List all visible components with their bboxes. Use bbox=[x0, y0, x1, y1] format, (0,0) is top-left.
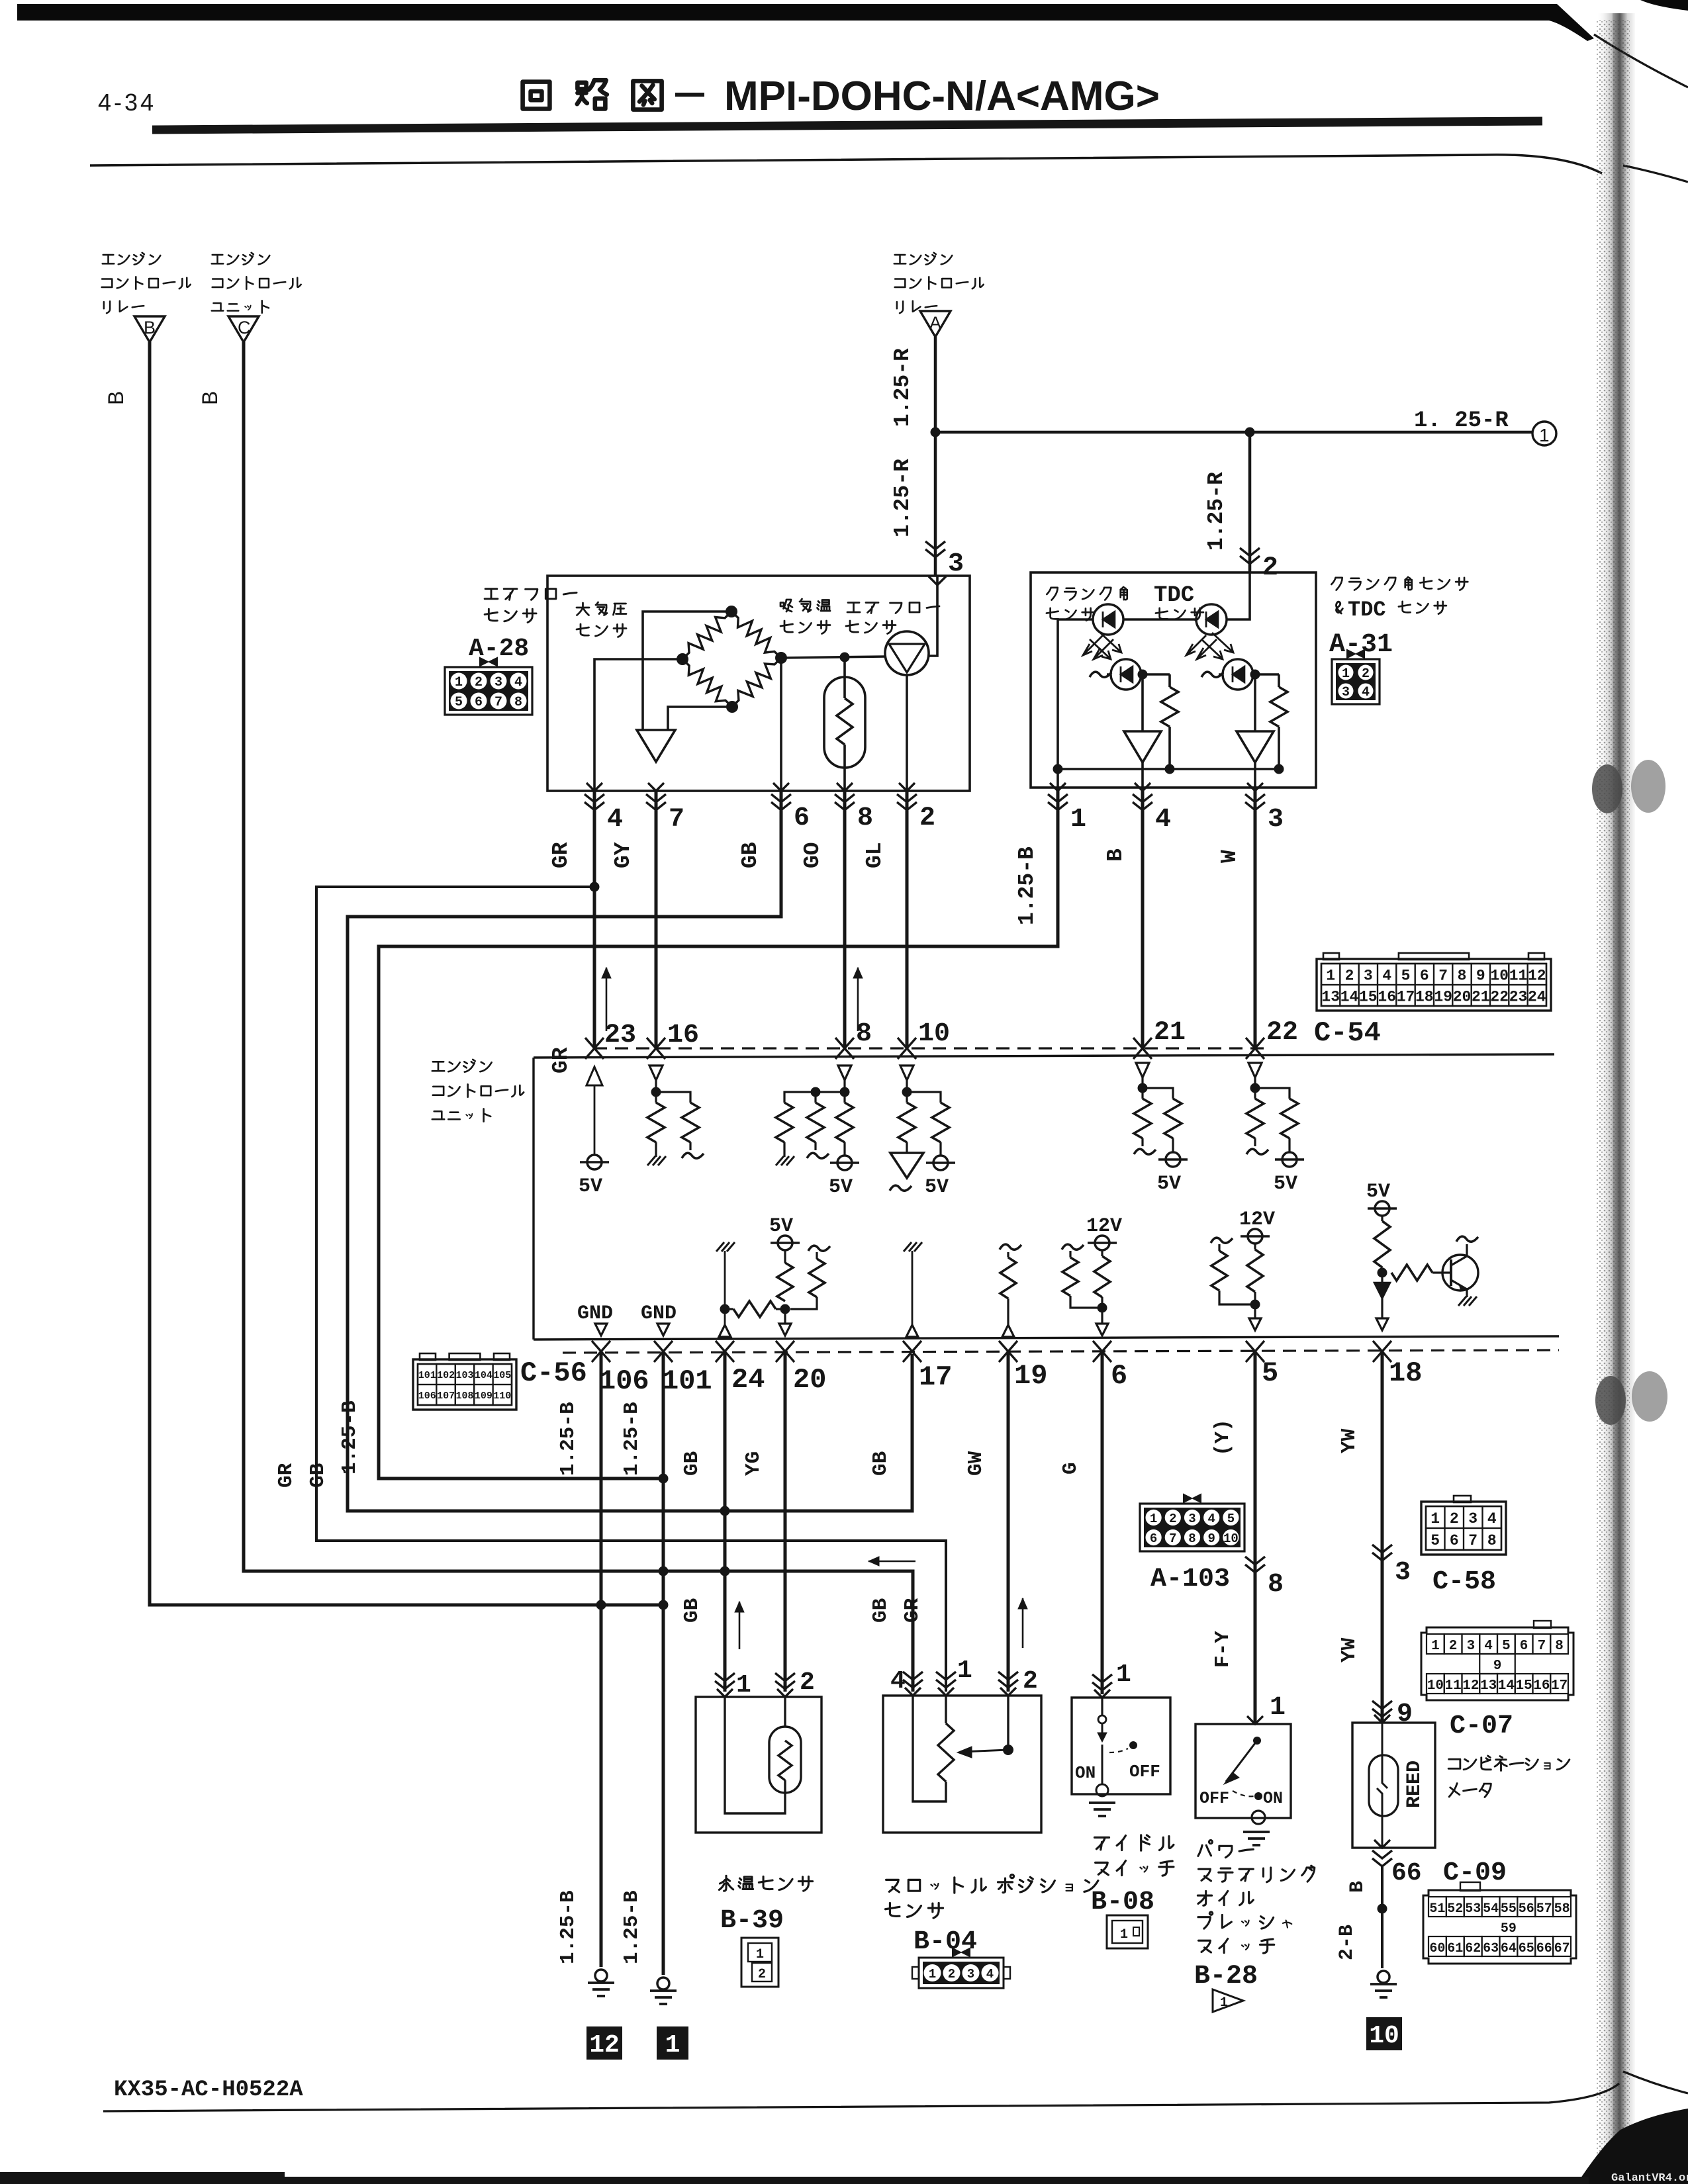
svg-text:4-34: 4-34 bbox=[98, 89, 156, 116]
direction arrow GR wire bbox=[606, 968, 608, 1031]
wire B A-31 pin4 to ECU pin 21 bbox=[1141, 791, 1145, 1050]
svg-text:5V: 5V bbox=[829, 1176, 853, 1199]
hatch ground top pin24 bbox=[716, 1242, 724, 1251]
wire GL pin2 to ECU pin 10 bbox=[906, 791, 909, 1050]
svg-text:3: 3 bbox=[1188, 1512, 1196, 1526]
PS switch ground bbox=[1252, 1811, 1265, 1824]
svg-text:6: 6 bbox=[1150, 1531, 1157, 1546]
connector C-07 17-pin bbox=[1421, 1627, 1573, 1700]
svg-text:63: 63 bbox=[1483, 1941, 1499, 1956]
ECU pin 21 input triangle bbox=[1136, 1063, 1149, 1077]
label power steering oil pressure switch bbox=[1198, 1841, 1213, 1856]
resistor pin22 bbox=[1246, 1099, 1264, 1138]
wire LED bus middle bbox=[1123, 618, 1197, 621]
svg-text:2: 2 bbox=[758, 1967, 766, 1982]
label air flow sensor A-28 bbox=[485, 589, 498, 599]
svg-text:1: 1 bbox=[1270, 1693, 1286, 1723]
svg-text:12V: 12V bbox=[1086, 1215, 1122, 1238]
svg-text:62: 62 bbox=[1465, 1941, 1481, 1956]
svg-text:15: 15 bbox=[1359, 988, 1378, 1005]
ECU pin 20 crossing bbox=[776, 1341, 794, 1362]
svg-text:2: 2 bbox=[919, 803, 935, 833]
ECU left border bbox=[532, 1058, 534, 1340]
ECU bottom boundary line bbox=[534, 1336, 1559, 1340]
TDC pullup resistor bbox=[1278, 674, 1280, 687]
svg-text:2: 2 bbox=[1450, 1510, 1459, 1527]
svg-text:10: 10 bbox=[1223, 1531, 1239, 1546]
LED TDC circle bbox=[1196, 604, 1227, 635]
photo crank input arrows bbox=[1090, 639, 1111, 659]
pin 18 output triangle bbox=[1376, 1318, 1388, 1330]
svg-text:8: 8 bbox=[1458, 967, 1467, 984]
connector C-56 10-pin bbox=[413, 1359, 516, 1410]
label engine control unit C bbox=[212, 255, 223, 263]
svg-text:KX35-AC-H0522A: KX35-AC-H0522A bbox=[114, 2077, 303, 2103]
wire GB pin6 to GB rail to ECU pin 17 bbox=[348, 791, 912, 1511]
svg-text:GB: GB bbox=[869, 1598, 892, 1623]
wire meter to ground bbox=[1381, 1866, 1383, 1968]
pullup resistor pin16 left bbox=[647, 1103, 665, 1142]
wire photo TDC output bbox=[1253, 673, 1279, 676]
hatch ground pin8 bbox=[776, 1156, 784, 1165]
idle switch ground bbox=[1096, 1784, 1108, 1796]
svg-text:61: 61 bbox=[1447, 1941, 1463, 1956]
pin 7 mark bbox=[646, 794, 666, 810]
thermistor capsule B-39 bbox=[769, 1727, 801, 1793]
svg-text:1: 1 bbox=[1539, 425, 1550, 445]
svg-text:1: 1 bbox=[756, 1947, 764, 1962]
svg-text:102: 102 bbox=[437, 1370, 455, 1381]
junction rail C at wire 101 bbox=[659, 1567, 669, 1576]
svg-text:101: 101 bbox=[662, 1365, 712, 1397]
svg-text:1.25-B: 1.25-B bbox=[1015, 846, 1039, 925]
svg-text:GB: GB bbox=[680, 1451, 704, 1476]
svg-text:3: 3 bbox=[1467, 1639, 1476, 1654]
bridge resistor top-left arm bbox=[682, 612, 731, 659]
junction pin16 bbox=[651, 1087, 661, 1097]
junction rail B to wire 101 bbox=[659, 1600, 669, 1610]
bridge node top bbox=[726, 606, 737, 617]
bridge resistor bottom-left arm bbox=[682, 659, 732, 707]
svg-text:58: 58 bbox=[1554, 1901, 1570, 1917]
svg-text:52: 52 bbox=[1447, 1901, 1463, 1917]
connector C-54 24-pin bbox=[1317, 959, 1551, 1011]
svg-text:B-28: B-28 bbox=[1194, 1962, 1258, 1991]
resistor pin19 bbox=[1000, 1257, 1016, 1298]
second resistor pin5 bbox=[1211, 1238, 1233, 1243]
svg-text:A-28: A-28 bbox=[469, 635, 529, 663]
svg-text:B: B bbox=[198, 391, 222, 405]
ECU pin 8 crossing bbox=[835, 1038, 854, 1059]
svg-text:3: 3 bbox=[1395, 1558, 1411, 1588]
svg-text:18: 18 bbox=[1415, 988, 1434, 1005]
svg-text:66: 66 bbox=[1536, 1941, 1552, 1956]
svg-text:5V: 5V bbox=[1157, 1173, 1181, 1195]
svg-text:1.25-B: 1.25-B bbox=[557, 1890, 580, 1964]
svg-text:B: B bbox=[1103, 848, 1128, 862]
label engine control relay B bbox=[103, 255, 114, 263]
pin 3 exit bbox=[1254, 762, 1256, 791]
svg-text:1: 1 bbox=[1120, 1927, 1128, 1942]
bus GR rail horizontal bbox=[316, 887, 946, 1692]
harness number 1 black box bbox=[657, 2026, 688, 2060]
wire pin 3 entry to meter bbox=[929, 576, 937, 656]
junction photo TDC bbox=[1250, 670, 1260, 680]
connector C-58 8-pin bbox=[1421, 1502, 1506, 1555]
ECU pin 101 crossing bbox=[654, 1341, 673, 1362]
branch pin22 to 5V bbox=[1255, 1088, 1289, 1099]
idle switch contacts bbox=[1101, 1698, 1103, 1715]
svg-text:4: 4 bbox=[1382, 967, 1391, 984]
thermistor capsule bbox=[824, 677, 865, 768]
airflow sensor box A-28 outline bbox=[547, 576, 970, 791]
junction 1.25-B rail at wire 101 bbox=[659, 1474, 669, 1484]
svg-text:7: 7 bbox=[1538, 1639, 1546, 1654]
svg-text:B-08: B-08 bbox=[1091, 1888, 1154, 1917]
pin 17 output triangle bbox=[906, 1325, 918, 1337]
svg-text:6: 6 bbox=[475, 695, 483, 710]
wire 19 GW to throttle pin 2 bbox=[1007, 1351, 1010, 1692]
svg-text:65: 65 bbox=[1519, 1941, 1534, 1956]
thin rule under header bbox=[90, 155, 1602, 173]
junction at crank wire bbox=[1245, 428, 1255, 437]
svg-text:5: 5 bbox=[1401, 967, 1411, 984]
photo diode crank circle bbox=[1111, 659, 1141, 690]
svg-text:19: 19 bbox=[1434, 988, 1452, 1005]
squiggle lead crank bbox=[1090, 672, 1111, 677]
label idle switch bbox=[1094, 1837, 1109, 1850]
svg-text:GND: GND bbox=[577, 1302, 613, 1325]
meter exit mark bbox=[1374, 1840, 1390, 1848]
binder hole pair 2 bbox=[1595, 1376, 1626, 1425]
box bottom pin exits bbox=[586, 783, 602, 791]
resistor pin10 left bbox=[898, 1103, 915, 1142]
svg-text:3: 3 bbox=[1268, 805, 1284, 835]
svg-text:23: 23 bbox=[1509, 988, 1528, 1005]
svg-text:12: 12 bbox=[589, 2031, 620, 2060]
svg-text:8: 8 bbox=[857, 803, 873, 833]
label atmospheric pressure sensor bbox=[577, 603, 589, 615]
svg-text:3: 3 bbox=[1342, 685, 1350, 700]
svg-text:107: 107 bbox=[437, 1390, 455, 1402]
svg-text:8: 8 bbox=[1487, 1532, 1497, 1549]
ECU pin 8 input triangle bbox=[838, 1066, 851, 1080]
base resistor pin18 bbox=[1391, 1265, 1432, 1281]
ECU pin 22 crossing bbox=[1246, 1038, 1264, 1059]
LED TDC emission arrows bbox=[1186, 635, 1206, 655]
svg-text:GR: GR bbox=[549, 842, 573, 868]
svg-text:GB: GB bbox=[738, 842, 763, 868]
wire 24 GB to water temp pin 1 bbox=[724, 1351, 727, 1692]
top black bar bbox=[17, 4, 1594, 41]
svg-text:2: 2 bbox=[1262, 553, 1278, 583]
bottom rule right page bbox=[1623, 2071, 1688, 2093]
svg-text:GY: GY bbox=[611, 842, 635, 868]
svg-text:12: 12 bbox=[1462, 1678, 1479, 1694]
bottom rule bbox=[103, 2083, 1619, 2111]
amp under pin10 bbox=[906, 1142, 908, 1153]
wire GY pin7 to ECU pin 16 bbox=[655, 791, 658, 1050]
svg-text:ON: ON bbox=[1075, 1763, 1096, 1783]
svg-text:4: 4 bbox=[1362, 685, 1370, 700]
ECU pin 18 crossing bbox=[1373, 1341, 1391, 1362]
wire thermistor to pin 8 bbox=[843, 745, 846, 791]
junction pin22 bbox=[1250, 1083, 1260, 1093]
svg-text:4: 4 bbox=[1207, 1512, 1215, 1526]
svg-text:TDC: TDC bbox=[1348, 598, 1386, 622]
svg-text:5: 5 bbox=[1262, 1357, 1278, 1389]
thermistor resistor bbox=[837, 698, 853, 745]
svg-text:B: B bbox=[1346, 1881, 1369, 1893]
svg-text:1.25-B: 1.25-B bbox=[338, 1400, 361, 1475]
ECU pin 21 crossing bbox=[1133, 1038, 1152, 1059]
svg-text:22: 22 bbox=[1266, 1018, 1298, 1048]
thin rule right page top bbox=[1623, 165, 1688, 182]
air flow meter triangle bbox=[889, 644, 925, 672]
svg-text:2: 2 bbox=[1345, 967, 1354, 984]
svg-text:5V: 5V bbox=[925, 1176, 949, 1199]
svg-text:3: 3 bbox=[1468, 1510, 1477, 1527]
svg-text:1: 1 bbox=[1326, 967, 1335, 984]
svg-text:1: 1 bbox=[1220, 1995, 1228, 2011]
svg-text:4: 4 bbox=[1484, 1639, 1493, 1654]
connector triangle B bbox=[134, 316, 165, 342]
svg-text:51: 51 bbox=[1429, 1901, 1445, 1917]
svg-text:23: 23 bbox=[604, 1021, 636, 1050]
pin 4 mark bbox=[585, 794, 604, 810]
buffer amp triangle bbox=[637, 730, 675, 762]
squiggle end pin16 bbox=[689, 1142, 691, 1150]
svg-text:2: 2 bbox=[475, 675, 483, 690]
svg-text:6: 6 bbox=[1520, 1639, 1528, 1654]
svg-text:53: 53 bbox=[1465, 1901, 1481, 1917]
svg-text:20: 20 bbox=[793, 1364, 826, 1396]
svg-text:16: 16 bbox=[1533, 1678, 1550, 1694]
svg-text:20: 20 bbox=[1453, 988, 1472, 1005]
branch resistor pin16 right bbox=[656, 1092, 690, 1103]
junction pin18 bbox=[1378, 1268, 1387, 1278]
harness triangle 1 bbox=[1213, 1989, 1243, 2012]
pullup pin5 to 12V bbox=[1247, 1250, 1263, 1292]
pin 19 output triangle bbox=[1002, 1325, 1014, 1337]
combination meter box bbox=[1352, 1723, 1435, 1848]
svg-text:16: 16 bbox=[1378, 988, 1396, 1005]
svg-text:1.25-B: 1.25-B bbox=[557, 1402, 580, 1476]
pin8 branch left bbox=[784, 1092, 845, 1103]
svg-text:1: 1 bbox=[1342, 666, 1350, 682]
svg-text:12: 12 bbox=[1528, 967, 1546, 984]
svg-text:4: 4 bbox=[1487, 1510, 1497, 1527]
wire right node down to pin 6 bbox=[780, 658, 782, 791]
crank amp bbox=[1141, 674, 1144, 731]
svg-text:3: 3 bbox=[967, 1967, 974, 1981]
ground meter wire bbox=[1378, 1971, 1389, 1983]
ECU connector dashed line top bbox=[594, 1047, 1269, 1049]
svg-text:17: 17 bbox=[919, 1361, 952, 1393]
svg-text:GL: GL bbox=[863, 842, 887, 868]
svg-text:GB: GB bbox=[680, 1598, 704, 1623]
svg-text:1. 25-R: 1. 25-R bbox=[1414, 408, 1509, 433]
svg-text:ON: ON bbox=[1263, 1789, 1283, 1808]
wire A down from triangle A bbox=[934, 337, 937, 576]
svg-text:2: 2 bbox=[1169, 1512, 1176, 1526]
pin 2 mark bbox=[897, 794, 917, 810]
svg-text:G: G bbox=[1059, 1462, 1082, 1475]
svg-text:3: 3 bbox=[494, 675, 502, 690]
svg-text:7: 7 bbox=[669, 805, 684, 835]
svg-text:10: 10 bbox=[1427, 1678, 1444, 1694]
REED relay capsule bbox=[1369, 1755, 1398, 1816]
svg-text:9: 9 bbox=[1493, 1659, 1502, 1674]
throttle interior return wire bbox=[913, 1696, 946, 1801]
label engine control relay A bbox=[894, 255, 906, 263]
junction at wire A bbox=[931, 428, 941, 437]
label water temp sensor bbox=[719, 1876, 733, 1891]
junction GB rail at wire 24 bbox=[720, 1506, 730, 1516]
svg-text:109: 109 bbox=[475, 1390, 492, 1402]
wire photo crank output bbox=[1141, 673, 1170, 676]
svg-text:A-103: A-103 bbox=[1150, 1565, 1230, 1594]
label air flow inner bbox=[847, 603, 860, 613]
wire W A-31 pin3 to ECU pin 22 bbox=[1254, 791, 1257, 1050]
svg-text:110: 110 bbox=[493, 1390, 511, 1402]
resistor pin8 mid bbox=[814, 1092, 816, 1103]
pin 24 output triangle bbox=[719, 1325, 731, 1337]
svg-text:5V: 5V bbox=[769, 1215, 793, 1238]
svg-text:5V: 5V bbox=[1366, 1181, 1390, 1203]
svg-text:18: 18 bbox=[1389, 1357, 1422, 1389]
wire GO pin8 to ECU pin 8 bbox=[843, 791, 847, 1050]
right page top edge curve bbox=[1594, 34, 1688, 87]
svg-text:4: 4 bbox=[1155, 805, 1171, 835]
svg-text:F-Y: F-Y bbox=[1211, 1631, 1235, 1668]
svg-text:1.25-R: 1.25-R bbox=[890, 348, 915, 427]
junction at thermistor bbox=[840, 653, 850, 662]
svg-text:YG: YG bbox=[742, 1451, 765, 1476]
pin 3 entry mark bbox=[929, 576, 946, 585]
connector A-28 8-pin bbox=[480, 658, 488, 666]
connector A-103 10-pin bbox=[1184, 1494, 1192, 1502]
svg-text:1: 1 bbox=[455, 675, 463, 690]
label crank angle sensor inner bbox=[1047, 588, 1057, 600]
throttle position sensor box B-04 bbox=[883, 1696, 1041, 1833]
svg-text:8: 8 bbox=[1268, 1570, 1284, 1600]
wire GR pin4 to ECU pin 23 bbox=[593, 791, 596, 1050]
air flow meter circle bbox=[885, 631, 929, 675]
junction rail C at wire 24 bbox=[720, 1567, 730, 1576]
svg-text:21: 21 bbox=[1472, 988, 1490, 1005]
diode pin18 bbox=[1374, 1283, 1390, 1298]
wire 18 YW to combination meter bbox=[1381, 1351, 1384, 1723]
svg-text:8: 8 bbox=[856, 1019, 872, 1049]
svg-text:13: 13 bbox=[1480, 1678, 1497, 1694]
svg-text:1: 1 bbox=[929, 1967, 936, 1981]
svg-text:101: 101 bbox=[418, 1370, 436, 1381]
junction pin6 bbox=[1098, 1303, 1107, 1313]
svg-text:B: B bbox=[104, 391, 128, 405]
svg-text:103: 103 bbox=[455, 1370, 473, 1381]
svg-text:(Y): (Y) bbox=[1211, 1419, 1235, 1456]
crank pullup resistor bbox=[1168, 674, 1171, 687]
pin 6 mark bbox=[771, 794, 791, 810]
svg-text:1.25-B: 1.25-B bbox=[620, 1890, 643, 1964]
svg-text:11: 11 bbox=[1509, 967, 1528, 984]
connector triangle C bbox=[228, 316, 259, 342]
ECU pin 16 input triangle bbox=[649, 1066, 663, 1080]
photo diode TDC circle bbox=[1223, 659, 1253, 690]
svg-text:C-54: C-54 bbox=[1314, 1017, 1381, 1049]
connector B-08 bbox=[1107, 1915, 1148, 1948]
svg-text:4: 4 bbox=[514, 675, 522, 690]
label engine control unit bbox=[432, 1062, 444, 1071]
wire rail C from triangle C down and right to throttle pin 4 bbox=[244, 342, 913, 1692]
wire left node to pin 4 bbox=[594, 659, 682, 791]
bridge node left bbox=[677, 653, 688, 665]
pullup pin6 to 12V bbox=[1094, 1256, 1110, 1297]
svg-text:1: 1 bbox=[736, 1671, 751, 1700]
svg-text:GalantVR4.org: GalantVR4.org bbox=[1611, 2172, 1688, 2184]
photo TDC input arrows bbox=[1201, 639, 1223, 659]
svg-text:6: 6 bbox=[1420, 967, 1429, 984]
svg-text:10: 10 bbox=[918, 1019, 950, 1049]
svg-text:1: 1 bbox=[957, 1657, 972, 1685]
svg-text:GND: GND bbox=[641, 1302, 677, 1325]
svg-text:57: 57 bbox=[1536, 1901, 1552, 1917]
svg-text:15: 15 bbox=[1515, 1678, 1532, 1694]
svg-text:21: 21 bbox=[1154, 1018, 1186, 1048]
junction pin20 bbox=[780, 1304, 790, 1314]
svg-text:4: 4 bbox=[986, 1967, 994, 1981]
svg-text:9: 9 bbox=[1397, 1700, 1413, 1729]
second resistor pin20 bbox=[808, 1246, 830, 1251]
connector B-39 2-pin bbox=[741, 1938, 778, 1987]
svg-text:8: 8 bbox=[514, 695, 522, 710]
wire LED crank to left rail bbox=[1058, 619, 1094, 769]
svg-text:106: 106 bbox=[599, 1365, 649, 1397]
svg-text:2: 2 bbox=[800, 1668, 815, 1697]
ECU pin 6 crossing bbox=[1093, 1341, 1111, 1362]
pin 4 exit bbox=[1141, 762, 1144, 791]
top right corner black wedge bbox=[1640, 0, 1688, 11]
pin 6 input triangle bbox=[1096, 1324, 1108, 1336]
svg-text:GO: GO bbox=[800, 842, 825, 868]
branch pin21 to 5V bbox=[1143, 1088, 1173, 1099]
hatch ground pin16 bbox=[647, 1156, 655, 1165]
svg-text:64: 64 bbox=[1501, 1941, 1517, 1956]
transistor Q bbox=[1442, 1255, 1478, 1291]
ECU top boundary line bbox=[534, 1054, 1554, 1058]
wire node to thermistor bbox=[843, 657, 846, 698]
svg-text:2: 2 bbox=[1449, 1639, 1458, 1654]
svg-text:8: 8 bbox=[1555, 1639, 1564, 1654]
direction arrow on rail C line bbox=[868, 1561, 915, 1563]
label intake temp sensor bbox=[780, 600, 792, 612]
wire 6 G to idle switch bbox=[1101, 1351, 1104, 1694]
svg-text:5: 5 bbox=[1227, 1512, 1235, 1526]
junction pin21 bbox=[1138, 1083, 1148, 1093]
svg-text:7: 7 bbox=[1169, 1531, 1176, 1546]
svg-text:1.25-B: 1.25-B bbox=[620, 1402, 643, 1476]
svg-text:GR: GR bbox=[901, 1598, 924, 1623]
svg-text:OFF: OFF bbox=[1199, 1789, 1229, 1808]
svg-text:A: A bbox=[929, 313, 941, 333]
harness number 12 black box bbox=[586, 2026, 622, 2060]
svg-text:105: 105 bbox=[493, 1370, 511, 1381]
direction arrow GO wire bbox=[857, 968, 859, 1031]
svg-text:4: 4 bbox=[607, 805, 623, 835]
ECU pin 24 crossing bbox=[716, 1341, 734, 1362]
svg-text:16: 16 bbox=[667, 1021, 699, 1050]
